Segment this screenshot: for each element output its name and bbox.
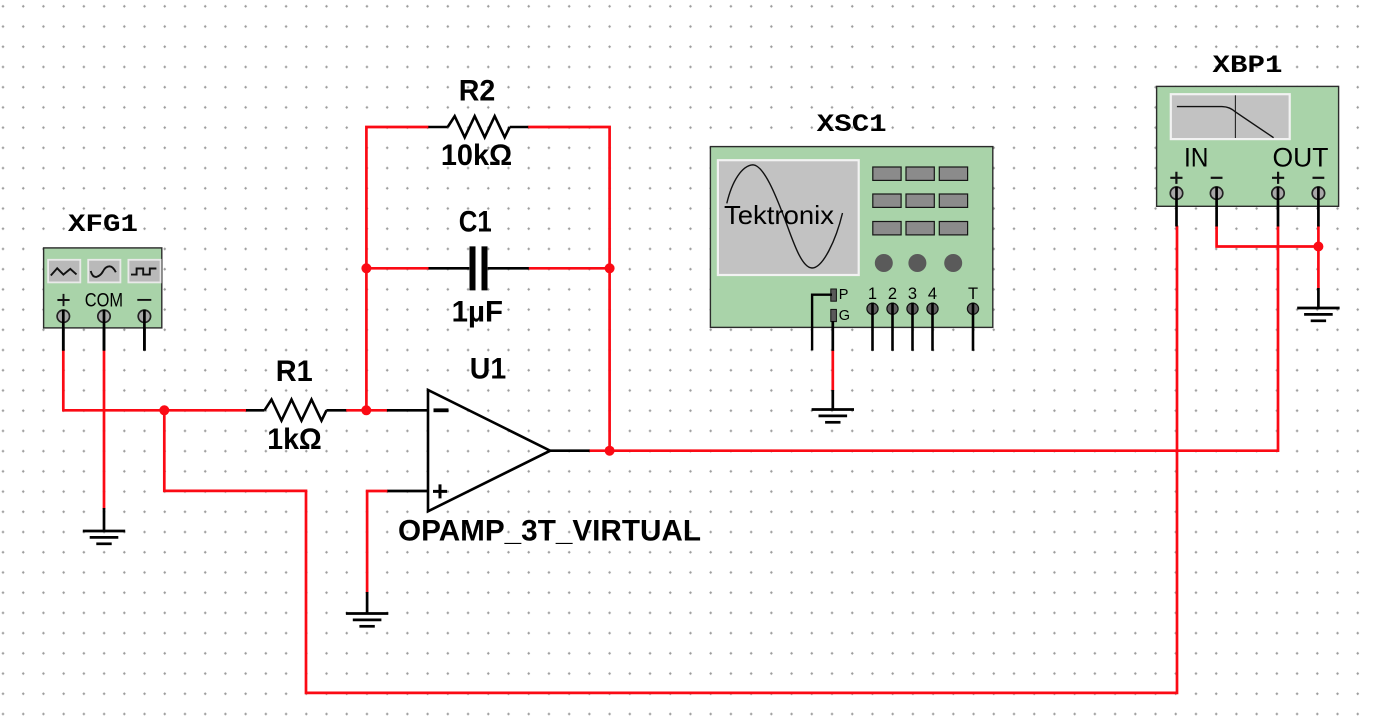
function generator XFG1: [44, 248, 162, 351]
junction node C1 right: [605, 263, 615, 273]
svg-text:2: 2: [888, 285, 897, 303]
svg-text:XFG1: XFG1: [68, 210, 138, 239]
svg-text:1: 1: [868, 285, 877, 303]
svg-text:Tektronix: Tektronix: [724, 200, 834, 230]
wire XSC1 pin 3 stub: [911, 303, 914, 351]
junction node feedback / inverting input: [361, 405, 371, 415]
junction node C1 left: [361, 263, 371, 273]
svg-text:OUT: OUT: [1273, 143, 1329, 173]
wire XBP1 IN- to OUT- net: [1217, 226, 1319, 247]
wire feedback top-right: R2 right, right vertical down to output: [528, 127, 610, 451]
wire non-inverting ground stub: [366, 592, 369, 614]
ground under XFG1: [83, 531, 125, 544]
wire XBP1 IN- pin stub: [1215, 187, 1218, 227]
wire op-amp output to XBP1 OUT+: [589, 226, 1278, 451]
wire XFG1 minus pin stub (unconnected): [143, 318, 146, 351]
svg-text:XBP1: XBP1: [1213, 51, 1283, 80]
svg-text:3: 3: [908, 285, 917, 303]
wire XFG1 COM ground stub: [103, 508, 106, 531]
wire XBP1 ground stub: [1317, 288, 1320, 308]
ground under XBP1 OUT-: [1297, 308, 1339, 321]
wire XSC1 G terminal red segment: [831, 350, 834, 391]
junction node XBP1 OUT-: [1313, 242, 1323, 252]
wire XSC1 pin 2 stub: [891, 303, 894, 351]
wire XSC1 pin T stub: [972, 303, 975, 351]
svg-text:4: 4: [928, 285, 937, 303]
svg-text:R2: R2: [459, 75, 496, 108]
resistor R2: [428, 116, 528, 137]
junction node at R1 input: [159, 405, 169, 415]
svg-text:OPAMP_3T_VIRTUAL: OPAMP_3T_VIRTUAL: [398, 515, 701, 548]
svg-text:U1: U1: [470, 352, 506, 385]
wire XBP1 OUT- down to ground: [1317, 226, 1320, 289]
resistor R1: [246, 400, 346, 421]
wire signal net junction to XBP1 IN+ (down, right, up): [164, 226, 1177, 693]
wire feedback top-left: R2 left to left vertical down to R1 node: [366, 127, 428, 410]
svg-text:10kΩ: 10kΩ: [441, 139, 512, 172]
svg-text:1µF: 1µF: [452, 296, 503, 329]
svg-text:T: T: [968, 285, 978, 303]
wire C1 left lead red: [366, 267, 429, 270]
wire XFG1 COM pin stub: [103, 318, 106, 351]
wire R1 to op-amp inverting input: [346, 409, 388, 412]
svg-text:C1: C1: [459, 206, 492, 239]
svg-text:R1: R1: [276, 355, 313, 388]
wire XFG1 plus pin stub: [62, 318, 65, 351]
capacitor C1: [429, 246, 529, 290]
svg-text:XSC1: XSC1: [817, 110, 887, 139]
svg-text:COM: COM: [85, 291, 123, 312]
svg-text:P: P: [839, 287, 849, 303]
wire XFG1 plus to R1 net: [62, 350, 247, 411]
wire XSC1 G lower black stub: [831, 390, 834, 410]
wire C1 right lead red: [528, 267, 610, 270]
oscilloscope XSC1: [710, 147, 992, 351]
svg-text:1kΩ: 1kΩ: [267, 423, 322, 456]
ground under op-amp non-inverting input: [346, 614, 388, 627]
op-amp U1: [387, 390, 590, 511]
wire XSC1 pin 4 stub: [931, 303, 934, 351]
wire XBP1 OUT+ pin stub: [1277, 187, 1280, 227]
svg-text:IN: IN: [1184, 143, 1209, 173]
svg-text:G: G: [839, 308, 850, 324]
ground under XSC1 G: [812, 410, 854, 423]
wire XBP1 OUT- pin stub: [1317, 187, 1320, 227]
bode plotter XBP1: [1157, 86, 1339, 206]
wire XFG1 COM to ground: [103, 350, 106, 510]
wire XBP1 IN+ pin stub: [1175, 187, 1178, 227]
junction node output / right feedback vertical: [605, 446, 615, 456]
wire XSC1 pin 1 stub: [871, 303, 874, 351]
wire op-amp non-inverting input to ground: [367, 491, 388, 593]
